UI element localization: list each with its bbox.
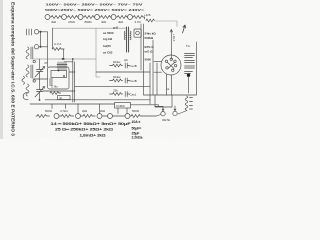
resistor R6b [133, 16, 145, 20]
wire drops [52, 104, 100, 114]
socket O4 [108, 114, 113, 119]
oscillator box [134, 29, 141, 37]
tube socket V6 (big circle) [161, 55, 181, 75]
coil L3 [26, 84, 29, 96]
variable capacitor CV2 [35, 79, 45, 100]
socket O2 [76, 114, 81, 119]
box C1900 [115, 103, 131, 109]
bottom chain: resistor R14 [36, 115, 49, 118]
resistor R16 [81, 115, 96, 118]
svg-text:500Ω: 500Ω [132, 109, 140, 113]
jack J3 [34, 45, 38, 49]
capacitor stack [50, 79, 53, 85]
value labels under chain [51, 20, 142, 24]
junction dot [62, 58, 64, 60]
svg-text:500V=250V~ 500V= 250V= 500V= 2: 500V=250V~ 500V= 250V= 500V= 240V= [45, 8, 144, 12]
svg-text:4kΩ: 4kΩ [51, 20, 57, 24]
wire rows exiting right [70, 71, 76, 73]
lamp V6 [128, 15, 133, 20]
wire bus y79 [33, 78, 48, 80]
svg-text:+125: +125 [144, 13, 151, 17]
svg-text:25 Ω━ 250kΩ+ 25Ω+ 2kΩ: 25 Ω━ 250kΩ+ 25Ω+ 2kΩ [55, 128, 113, 132]
lamp V2 [62, 15, 67, 20]
wire [39, 32, 48, 47]
wire [113, 115, 126, 117]
svg-text:10A ±: 10A ± [132, 120, 141, 124]
resistor R2 [50, 16, 62, 19]
lamp V1 [45, 15, 50, 20]
lamp V5 [111, 15, 116, 20]
shield box (IF can) [48, 67, 70, 89]
transformer winding W2 [185, 61, 195, 63]
svg-text:ψC: ψC [124, 58, 128, 62]
resistor R3 [67, 16, 79, 19]
IF transformer core bars [127, 27, 129, 52]
value list text block [103, 26, 118, 55]
node labels: voltages above lamp chain [45, 3, 144, 13]
wire to plug P2 [174, 106, 176, 111]
svg-text:av C63: av C63 [103, 51, 113, 55]
coil L1 [26, 47, 29, 59]
antenna input bars A2 [27, 29, 32, 35]
svg-text:14 ━ 500kΩ+ 50kΩ+ 5mΩ+ 50μF: 14 ━ 500kΩ+ 50kΩ+ 5mΩ+ 50μF [51, 122, 133, 126]
wire [102, 115, 108, 117]
svg-text:100V~ 500V~ 280V~ 500V~ 70: 100V~ 500V~ 280V~ 500V~ 70V~ 75V [46, 3, 145, 7]
double vertical bus [73, 59, 75, 102]
wire bus y99.8 [45, 99, 150, 101]
socket O5 [125, 114, 130, 119]
junction dot [39, 99, 41, 101]
frame arc [23, 93, 28, 100]
svg-text:4.7Ω: 4.7Ω [135, 20, 142, 24]
resistor R5 [100, 16, 112, 19]
wire: upper horizontal bus [53, 27, 127, 29]
mains plug pin P1 [161, 112, 165, 116]
wire bus y104 [30, 103, 115, 105]
socket O3 [97, 114, 102, 119]
left scan edge shade [0, 0, 3, 139]
wire bus below box [47, 90, 75, 92]
IF coil right [130, 31, 131, 40]
lower box [155, 95, 172, 107]
core bars [31, 47, 33, 59]
wire bus y72 [96, 71, 150, 73]
wire [39, 46, 48, 48]
resistor R4 [83, 16, 95, 19]
wire from coil to plug [178, 111, 187, 115]
svg-text:25k: 25k [113, 89, 118, 93]
wire bus y86.6 [75, 86, 150, 88]
wire to plug [142, 115, 161, 117]
wire from junction dot down [188, 77, 190, 93]
svg-text:Esquema completo del Super-ete: Esquema completo del Super-eter I.C.S. 6… [11, 2, 16, 137]
right box outline [141, 24, 197, 95]
wire [63, 49, 65, 59]
wire to plug P1 [162, 107, 164, 111]
svg-text:+10 A: +10 A [172, 34, 176, 42]
svg-text:BTG G: BTG G [145, 45, 155, 49]
coil L3b [22, 76, 25, 84]
svg-text:hu(50: hu(50 [103, 44, 111, 48]
svg-text:mG Ω: mG Ω [145, 50, 154, 54]
svg-text:47: 47 [44, 61, 48, 65]
svg-text:C1900: C1900 [116, 104, 125, 108]
core bars [31, 65, 33, 78]
svg-text:g·(f: g·(f [113, 26, 118, 30]
svg-text:Cu≠B: Cu≠B [130, 79, 137, 83]
junction dot on inner box [58, 70, 60, 72]
wire bus y91 [43, 90, 48, 92]
lamp V4 [95, 15, 100, 20]
junction dot [72, 58, 74, 60]
IF coil left [124, 31, 125, 40]
text rows in right box [145, 32, 157, 62]
svg-text:ax 5000: ax 5000 [103, 31, 114, 35]
svg-text:RETE: RETE [162, 118, 170, 122]
svg-text:2kΩ: 2kΩ [82, 109, 88, 113]
wire from tube down [167, 74, 172, 95]
pointer arrow mark [183, 25, 186, 33]
tube electrodes [57, 62, 67, 70]
svg-text:47kΩ: 47kΩ [68, 20, 76, 24]
transformer winding W1 [185, 54, 195, 58]
svg-text:2kΩ: 2kΩ [100, 109, 106, 113]
junction dot [63, 58, 65, 60]
tube in box [136, 31, 140, 35]
resistor R6 [116, 16, 128, 19]
jack J2 [34, 30, 38, 34]
wire bus y59 [33, 58, 96, 60]
trimmer T1 [33, 60, 35, 62]
small box under [58, 96, 71, 100]
resistor R18 [130, 115, 141, 118]
svg-text:4kΩ: 4kΩ [118, 20, 124, 24]
svg-text:Cu≠B: Cu≠B [130, 64, 137, 68]
transformer winding W4 [185, 72, 193, 74]
svg-text:Cas1: Cas1 [130, 93, 137, 97]
svg-text:mt: mt [166, 87, 169, 91]
lamp V3 [78, 15, 83, 20]
vertical bus x150 [149, 63, 151, 104]
wire drops from box [118, 105, 163, 114]
junction dot [40, 31, 42, 33]
wire stubs to partition [154, 62, 162, 73]
svg-text:500Ω: 500Ω [45, 109, 53, 113]
labels above bottom chain [45, 109, 140, 113]
resistor R8 [53, 48, 65, 51]
tap bars [190, 98, 193, 110]
svg-text:NFkw: NFkw [113, 75, 121, 79]
svg-text:NFkw: NFkw [113, 60, 121, 64]
svg-text:A.V.A.: A.V.A. [54, 42, 62, 46]
resistor R10 under box [50, 92, 61, 95]
svg-text:500kΩ: 500kΩ [145, 36, 154, 40]
mains plug pin P2 [173, 111, 177, 115]
transformer winding W3 [185, 66, 195, 68]
dot inside [63, 75, 65, 77]
trimmer T2 [33, 80, 35, 82]
svg-text:C·filo: C·filo [51, 85, 58, 89]
wire: vertical from bus to AVA resistor [52, 28, 54, 49]
wire: jack feed down to box [47, 32, 49, 67]
resistor R7 [146, 19, 154, 22]
svg-text:Tm: Tm [186, 44, 191, 48]
coil L2 [26, 65, 29, 77]
svg-text:4.7kΩ: 4.7kΩ [60, 109, 68, 113]
junction dot [187, 74, 190, 77]
junction dot [40, 46, 42, 48]
svg-text:2.2kΩ±: 2.2kΩ± [132, 135, 143, 139]
resistor R15 [59, 115, 74, 118]
pin wires [168, 55, 175, 69]
vertical feed to rows [96, 28, 100, 77]
svg-text:24kv kΩ: 24kv kΩ [145, 32, 157, 36]
svg-text:1,8mΩ+ 2kΩ: 1,8mΩ+ 2kΩ [80, 133, 106, 137]
wire top bus of right box [155, 21, 177, 27]
vertical wire with arrow [170, 30, 173, 56]
svg-text:5000: 5000 [145, 58, 152, 62]
power transformer coil [185, 96, 188, 111]
svg-text:4n: 4n [59, 96, 63, 100]
variable capacitor CV1 [35, 59, 45, 79]
inner box [51, 71, 67, 78]
wire bus y62 [64, 61, 73, 63]
svg-text:50μF=: 50μF= [132, 127, 142, 131]
svg-text:4kΩ: 4kΩ [101, 20, 107, 24]
svg-text:tvg kΩ: tvg kΩ [103, 37, 113, 41]
socket O1 [54, 114, 59, 119]
svg-text:890Ω: 890Ω [85, 20, 93, 24]
pin circles [165, 60, 167, 62]
